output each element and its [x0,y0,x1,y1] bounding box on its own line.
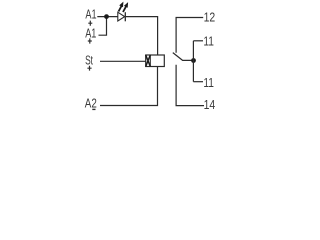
LED light arrow 1 [119,2,124,12]
wire coil bottom to A2 [100,67,158,106]
wire second A1 riser to junction [99,17,107,36]
contact arm (changeover) [173,53,194,61]
polarity + of St [87,66,91,71]
terminal 11 upper branch wire [193,40,203,42]
relay coil K1 divider [149,55,151,67]
svg-text:14: 14 [204,97,216,112]
svg-text:11: 11 [203,75,214,90]
svg-text:St: St [85,53,93,68]
wire A1 to LED anode [97,16,118,18]
wire LED cathode to coil top [126,17,158,55]
terminal 14 branch wire [176,65,204,106]
polarity + of second A1 [88,38,92,43]
relay coil K1 body [146,55,165,67]
terminal 11 vertical wire [192,41,194,82]
svg-text:A2: A2 [85,96,97,111]
terminal 11 lower branch wire [193,81,203,83]
LED light arrow 2 [123,2,128,12]
svg-text:11: 11 [203,33,214,48]
svg-text:12: 12 [204,9,216,24]
wire St to coil [100,60,146,62]
svg-text:A1: A1 [85,7,96,22]
junction dot at A1 node [104,14,109,19]
LED D1 cathode bar [124,12,126,21]
terminal 12 branch wire [176,18,203,53]
relay coil K1 X mark [146,55,151,67]
svg-text:A1: A1 [85,25,96,40]
polarity - of A2 [92,108,95,110]
junction dot on 11 line [191,58,196,63]
polarity + of first A1 [88,21,92,26]
LED D1 triangle (anode) [118,12,125,21]
